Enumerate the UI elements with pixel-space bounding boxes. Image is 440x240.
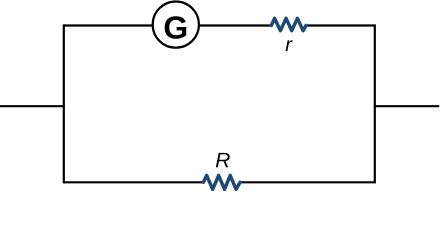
wire: left external lead [0, 105, 65, 107]
label r [286, 40, 293, 51]
wire: left vertical side [63, 24, 65, 183]
wire: right external lead [374, 105, 440, 107]
wire: bottom side, left segment to resistor R [64, 181, 203, 183]
wire: top side, segment between galvanometer and resistor r [199, 24, 271, 26]
wire: bottom side, right segment from resistor R [241, 181, 375, 183]
resistor r [271, 18, 306, 30]
wire: top side, segment right of resistor r [307, 24, 375, 26]
label R [216, 153, 230, 167]
wire: right vertical side [374, 24, 376, 183]
galvanometer G [153, 2, 199, 48]
wire: top side, left segment to galvanometer [64, 24, 153, 26]
resistor R [203, 175, 240, 189]
